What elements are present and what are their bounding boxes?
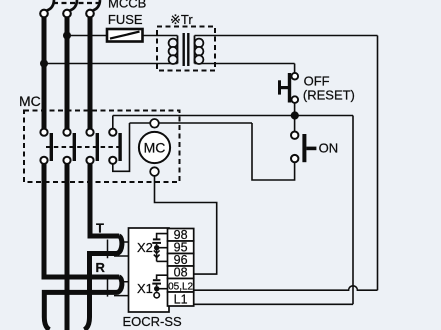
wire: junction down to ON, ON bottom to MC coil top loop [252,116,295,181]
contact X2 internal (95/96/98) [152,234,167,262]
CT window frame T [108,240,129,259]
svg-text:MC: MC [19,93,41,109]
wire: right rail V2 x=377.5 down [377,36,379,291]
svg-text:05,L2: 05,L2 [168,282,193,293]
wire: contact linkage (dashed) [46,146,123,148]
terminal 95 [168,241,194,255]
CT window frame R [108,279,129,296]
svg-text:ON: ON [319,141,339,156]
svg-text:※Tr: ※Tr [170,12,193,27]
contact X1 internal (05/08) [152,275,167,298]
svg-text:MC: MC [144,139,166,155]
terminal 98 [168,228,194,242]
wire: 05,L2 wire with hop over V1 [194,286,378,290]
node: junction dot at (294.8,115.5) [291,111,299,119]
svg-text:L1: L1 [174,293,188,307]
contact MC main pole 2 [63,129,76,164]
pushbutton ON, NO [291,132,316,163]
contact MC main pole 3 [86,129,99,164]
svg-text:R: R [96,260,106,275]
wire: S-phase thick line (pole 2) [65,17,70,129]
wire: Tr primary bottom y=63.5 from R-phase to transformer [44,63,178,65]
relay EOCR-SS body [129,228,170,312]
wire: node B y=123 from aux-bottom riser through MC coil to x=252 [130,122,253,124]
svg-text:OFF: OFF [304,74,330,89]
node: junction dot on S-phase at (67,35.5) [63,32,71,40]
svg-text:X2: X2 [137,240,153,255]
wire: MC aux bottom loop to node B [113,123,130,171]
contactor MC dashed enclosure [24,111,180,183]
svg-text:EOCR-SS: EOCR-SS [123,314,183,329]
node: junction dot on R-phase at (44,63.5) [40,60,48,68]
wire: control node A y=115.5 from MC aux to V1 [113,115,353,117]
wire: R-phase thick line (pole 1) [42,17,47,129]
svg-text:(RESET): (RESET) [303,88,355,103]
wire: T-phase thick line (pole 3) [88,17,93,129]
wire: Tr secondary bottom y=63.5 to OFF button [195,63,295,65]
transformer Tr secondary winding [195,36,204,64]
svg-text:08: 08 [174,266,188,280]
wire: fuse feed y=35.5 from S-phase to fuse and Tr primary top [67,35,178,37]
contact MC auxiliary [109,129,122,164]
wire: right rail V1 x=353 down [352,116,354,305]
svg-text:T: T [96,221,104,236]
transformer Tr (dashed box) [157,27,215,71]
pushbutton OFF (RESET), NC [278,73,298,103]
svg-text:FUSE: FUSE [108,12,143,27]
terminal L1 [168,292,194,307]
CT loop T-phase through EOCR window [84,236,122,330]
breaker MCCB: three poles with linkage [40,0,100,17]
svg-text:MCCB: MCCB [108,0,146,11]
terminal 05,L2 [168,279,194,293]
wire: MC aux top to node A [112,116,114,129]
wire: L1 wire y=304.3 [194,303,353,305]
wire: OFF to junction vertical [294,64,296,116]
terminal 96 [168,253,194,267]
transformer Tr primary winding [169,36,178,64]
fuse FUSE [107,29,143,42]
wire: MC coil bottom to terminal 08 [155,176,217,274]
CT loop R-phase through EOCR window [44,277,122,330]
terminal 08 [168,266,194,280]
transformer Tr core [184,33,189,66]
svg-text:X1: X1 [137,281,153,296]
coil MC [139,119,170,176]
contact MC main pole 1 [40,129,53,164]
wire: Tr secondary top y=35.5 to right rail [195,35,378,37]
